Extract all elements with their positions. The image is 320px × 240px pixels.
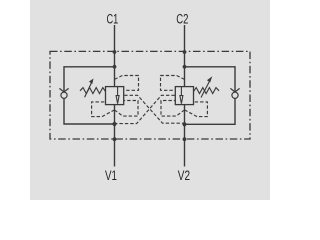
junction dot left loop bottom <box>112 122 116 126</box>
check valve loop left (wire) <box>64 67 115 124</box>
port line C2-V2 (right main line) <box>184 25 186 167</box>
pilot line: cross pilot from right box to left line <box>115 95 175 123</box>
relief valve right internal flow arrow <box>180 87 183 104</box>
pilot line: C1 sense flag (left) <box>115 76 139 91</box>
valve body boundary (dash-dot border) <box>50 51 250 139</box>
check valve CV2 seat <box>230 88 239 92</box>
svg-text:C1: C1 <box>107 11 119 26</box>
check valve CV1 ball <box>61 92 67 98</box>
pilot line: C2 sense flag (right) <box>161 76 185 91</box>
pilot line: cross pilot from left box to right line <box>124 95 184 123</box>
svg-text:V2: V2 <box>178 168 190 183</box>
pilot line: right valve drain loop (right side) <box>185 102 208 117</box>
adjustment arrow right <box>201 82 209 98</box>
check valve CV1 seat <box>59 88 68 92</box>
junction dot right loop top <box>183 65 187 69</box>
gray drawing panel <box>30 0 270 200</box>
pilot line: left valve drain loop (left side) <box>92 102 115 117</box>
relief valve left internal flow arrow <box>116 87 119 104</box>
spring left (adjustable) <box>80 88 106 94</box>
svg-text:C2: C2 <box>176 11 188 26</box>
pilot line: right valve lower sense loop (left side) <box>161 101 185 117</box>
junction dot left line / border bottom <box>113 137 117 141</box>
junction dot right loop bottom <box>182 122 186 126</box>
spring right (adjustable) <box>194 88 220 94</box>
junction dot right line / border bottom <box>183 137 187 141</box>
junction dot right line / border top <box>183 50 187 54</box>
svg-text:V1: V1 <box>105 168 117 183</box>
check valve loop right (wire) <box>185 67 236 125</box>
pilot line: left valve lower sense loop (right side) <box>115 101 139 117</box>
junction dot left line / border top <box>113 50 117 54</box>
junction dot left loop top <box>113 65 117 69</box>
port line C1-V1 (left main line) <box>114 25 116 167</box>
adjustment arrow left <box>85 81 93 97</box>
relief valve box left <box>106 87 124 105</box>
relief valve box right <box>175 87 193 105</box>
check valve CV2 ball <box>232 92 238 98</box>
